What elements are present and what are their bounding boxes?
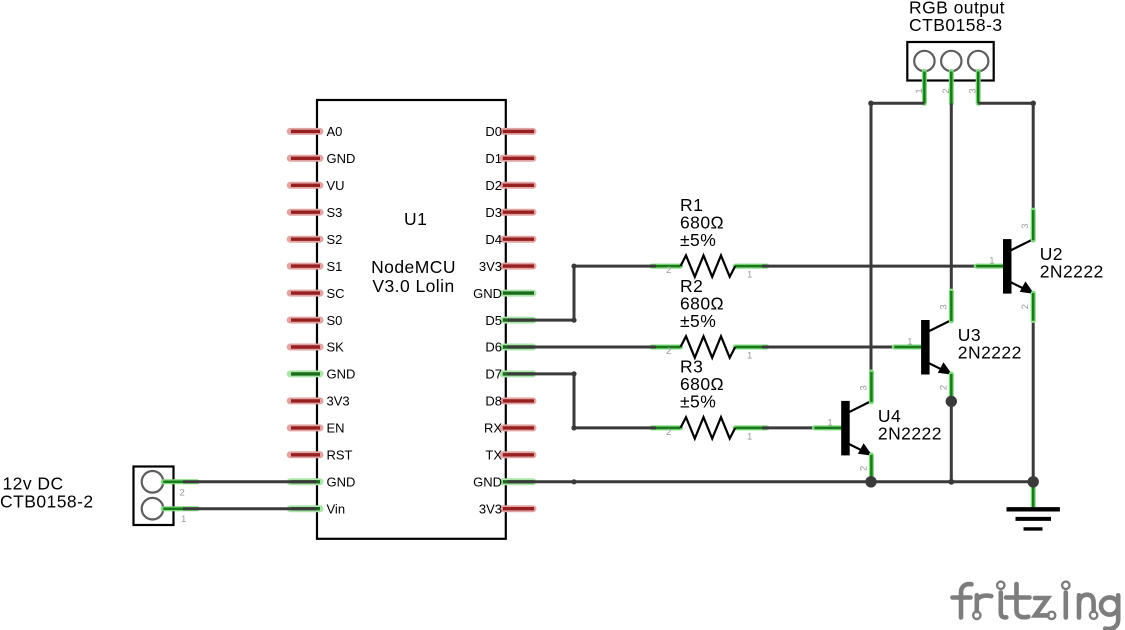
transistor U4 2N2222 NPN <box>814 425 843 430</box>
svg-text:S2: S2 <box>327 232 343 247</box>
svg-text:EN: EN <box>327 421 345 436</box>
svg-text:1: 1 <box>827 417 832 428</box>
wire J1-2 to U1 GND <box>183 480 317 483</box>
wire R3 right to U4 base <box>762 426 816 429</box>
U1 left pin S0 <box>290 317 320 324</box>
wire D5 pin to bend <box>508 319 575 322</box>
U1 right pin D0 <box>503 128 533 135</box>
svg-text:2: 2 <box>858 466 869 471</box>
bendpoint 574,428 <box>571 425 576 430</box>
svg-text:D3: D3 <box>485 205 502 220</box>
transistor U2 2N2222 NPN <box>976 264 1005 269</box>
svg-text:1: 1 <box>989 256 994 267</box>
U1 right pin D2 <box>503 182 533 189</box>
U1 left pin SK <box>290 344 320 351</box>
wire J2 pin1 horizontal <box>871 102 924 105</box>
svg-text:2N2222: 2N2222 <box>878 423 942 443</box>
bendpoint 951,482 <box>948 479 954 485</box>
svg-text:D6: D6 <box>485 340 502 355</box>
U1 left pin RST <box>290 451 320 458</box>
wire to R1 left <box>574 265 656 268</box>
svg-text:1: 1 <box>914 88 925 93</box>
svg-text:GND: GND <box>473 475 502 490</box>
U1 left pin VU <box>290 182 320 189</box>
wire to R3 left <box>574 426 656 429</box>
svg-text:1: 1 <box>747 431 752 442</box>
svg-text:S0: S0 <box>327 313 343 328</box>
junction bendpoint at 1033,103 <box>1030 101 1036 107</box>
svg-text:GND: GND <box>327 367 356 382</box>
wire R2 right to U3 base <box>762 346 896 349</box>
svg-text:2: 2 <box>666 265 671 276</box>
svg-text:2: 2 <box>666 346 671 357</box>
svg-text:U1: U1 <box>404 209 427 229</box>
svg-text:1: 1 <box>747 270 752 281</box>
U4 collector lead <box>869 372 874 402</box>
svg-text:SC: SC <box>327 286 345 301</box>
svg-text:D5: D5 <box>485 313 502 328</box>
U1 left pin GND <box>290 370 320 377</box>
U1 right pin 3V3 <box>503 505 533 512</box>
U1 left pin A0 <box>290 128 320 135</box>
U1 right pin D4 <box>503 236 533 243</box>
svg-text:RX: RX <box>484 421 502 436</box>
U1 left pin S1 <box>290 263 320 270</box>
resistor R2 680 ohm <box>652 345 681 350</box>
svg-text:CTB0158-2: CTB0158-2 <box>0 492 94 512</box>
svg-text:2: 2 <box>666 427 671 438</box>
svg-text:TX: TX <box>485 448 502 463</box>
junction dot U4 emitter <box>865 476 876 487</box>
ground symbol <box>1007 509 1060 529</box>
U1 right pin 3V3 <box>503 263 533 270</box>
U1 right pin D7 <box>503 370 533 377</box>
wire J2 pin3 horizontal <box>978 102 1033 105</box>
fritzing watermark logo <box>953 582 1119 629</box>
ground symbol lead <box>1031 482 1036 507</box>
U1 left pin SC <box>290 290 320 297</box>
svg-text:1: 1 <box>747 351 752 362</box>
svg-text:D2: D2 <box>485 178 502 193</box>
resistor R1 680 ohm <box>652 264 681 269</box>
wire J2 pin2 vertical to U3 collector <box>950 103 953 292</box>
svg-text:GND: GND <box>327 151 356 166</box>
svg-text:VU: VU <box>327 178 345 193</box>
svg-text:1: 1 <box>181 514 186 525</box>
U1 right pin D1 <box>503 155 533 162</box>
wire GND bus <box>574 480 1033 483</box>
U1 left pin GND <box>290 155 320 162</box>
junction bendpoint at 871,103 <box>868 101 874 107</box>
connector J1 12v DC CTB0158-2 body <box>134 467 174 526</box>
svg-text:3V3: 3V3 <box>479 259 502 274</box>
U1 left pin Vin <box>290 505 320 512</box>
J2 pin 2 lead <box>949 72 954 104</box>
U3 collector lead <box>949 291 954 321</box>
bendpoint 574,320 <box>571 318 576 323</box>
svg-text:2N2222: 2N2222 <box>1040 262 1104 282</box>
connector J2 RGB output CTB0158-3 body <box>907 42 993 81</box>
wire D6 pin to R2 left <box>508 346 657 349</box>
svg-text:2: 2 <box>938 385 949 390</box>
svg-text:3: 3 <box>858 385 869 390</box>
svg-text:GND: GND <box>473 286 502 301</box>
U3 emitter lead <box>949 374 954 402</box>
wire D7 pin to bend <box>508 372 575 375</box>
svg-text:3: 3 <box>968 88 979 93</box>
U1 right pin D5 <box>503 317 533 324</box>
J2 pin 3 lead <box>976 72 981 104</box>
wire GND pin to bend <box>508 480 575 483</box>
U1 right pin D3 <box>503 209 533 216</box>
U1 left pin 3V3 <box>290 397 320 404</box>
U1 left pin GND <box>290 478 320 485</box>
svg-text:D8: D8 <box>485 394 502 409</box>
svg-text:NodeMCU: NodeMCU <box>371 257 456 277</box>
svg-text:D4: D4 <box>485 232 502 247</box>
svg-text:±5%: ±5% <box>680 392 716 412</box>
junction dot U3 emitter <box>946 396 957 407</box>
svg-text:2: 2 <box>1020 304 1031 309</box>
svg-text:CTB0158-3: CTB0158-3 <box>909 15 1003 35</box>
U2 collector lead <box>1031 210 1036 240</box>
wire vertical D5 up <box>573 266 576 320</box>
svg-text:2: 2 <box>180 487 185 498</box>
wire vertical D7 down <box>573 374 576 428</box>
J1 pin 2 lead <box>163 479 197 484</box>
svg-text:2N2222: 2N2222 <box>958 343 1022 363</box>
wire J1-1 to U1 Vin <box>183 507 317 510</box>
resistor R3 680 ohm <box>652 425 681 430</box>
J2 pin 1 lead <box>922 72 927 104</box>
U1 right pin RX <box>503 424 533 431</box>
U1 left pin EN <box>290 424 320 431</box>
U1 left pin S3 <box>290 209 320 216</box>
U1 right pin D6 <box>503 344 533 351</box>
wire R1 right to U2 base <box>762 265 977 268</box>
svg-text:D7: D7 <box>485 367 502 382</box>
U1 right pin TX <box>503 451 533 458</box>
svg-text:RST: RST <box>327 448 353 463</box>
svg-text:3V3: 3V3 <box>479 501 502 516</box>
bendpoint 574,482 <box>571 479 576 484</box>
svg-text:3: 3 <box>1020 223 1031 228</box>
wire vertical to U4 collector <box>870 103 873 373</box>
bendpoint 574,266 <box>571 264 576 269</box>
U1 right pin GND <box>503 290 533 297</box>
wire vertical to U2 collector <box>1032 103 1035 212</box>
U4 emitter lead <box>869 455 874 483</box>
wire U2 emitter down <box>1032 320 1035 482</box>
svg-text:±5%: ±5% <box>680 230 716 250</box>
svg-text:D0: D0 <box>485 124 502 139</box>
wire U3 emitter down <box>950 401 953 481</box>
bendpoint 574,374 <box>571 371 576 376</box>
IC U1 NodeMCU body <box>317 100 506 539</box>
svg-text:3V3: 3V3 <box>327 394 350 409</box>
junction dot ground tap <box>1028 476 1039 487</box>
U1 left pin S2 <box>290 236 320 243</box>
U1 right pin D8 <box>503 397 533 404</box>
U1 right pin GND <box>503 478 533 485</box>
svg-text:GND: GND <box>327 475 356 490</box>
J1 pin 1 lead <box>163 506 197 511</box>
svg-text:D1: D1 <box>485 151 502 166</box>
svg-text:A0: A0 <box>327 124 343 139</box>
svg-text:±5%: ±5% <box>680 311 716 331</box>
svg-text:2: 2 <box>941 88 952 93</box>
svg-text:S1: S1 <box>327 259 343 274</box>
svg-text:Vin: Vin <box>327 501 346 516</box>
svg-text:1: 1 <box>907 337 912 348</box>
svg-text:SK: SK <box>327 340 345 355</box>
U2 emitter lead <box>1031 293 1036 321</box>
transistor U3 2N2222 NPN <box>894 345 923 350</box>
svg-text:V3.0 Lolin: V3.0 Lolin <box>372 276 454 296</box>
svg-text:12v DC: 12v DC <box>3 474 64 494</box>
svg-text:3: 3 <box>938 304 949 309</box>
svg-text:S3: S3 <box>327 205 343 220</box>
